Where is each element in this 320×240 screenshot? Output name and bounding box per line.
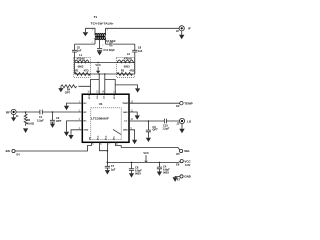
svg-text:47Ω: 47Ω	[84, 69, 89, 73]
svg-text:VCC: VCC	[184, 159, 191, 163]
svg-text:E2: E2	[176, 104, 180, 108]
svg-text:VCC: VCC	[97, 135, 99, 140]
svg-text:C1: C1	[39, 115, 43, 119]
svg-text:GND: GND	[184, 175, 192, 179]
svg-text:OPT: OPT	[56, 119, 62, 123]
svg-text:EN: EN	[6, 149, 10, 153]
svg-text:GND: GND	[123, 130, 128, 132]
svg-text:1µF: 1µF	[111, 167, 116, 171]
svg-text:0603: 0603	[163, 171, 169, 175]
svg-text:2.2pF: 2.2pF	[37, 118, 44, 122]
svg-text:LO-: LO-	[104, 95, 106, 99]
svg-text:SEL: SEL	[184, 149, 190, 153]
svg-text:VCC: VCC	[89, 94, 91, 99]
svg-text:VCC: VCC	[143, 151, 149, 155]
svg-text:TEMP: TEMP	[184, 102, 192, 106]
svg-text:VCC: VCC	[114, 94, 116, 99]
svg-text:R3: R3	[27, 118, 31, 122]
svg-text:R1: R1	[75, 69, 79, 73]
svg-text:EN: EN	[89, 137, 91, 140]
svg-text:47Ω: 47Ω	[129, 69, 134, 73]
svg-text:TC4-1W-7ALN+: TC4-1W-7ALN+	[91, 22, 114, 26]
svg-text:IF: IF	[188, 26, 191, 30]
svg-text:LO: LO	[124, 121, 127, 123]
svg-text:E6: E6	[176, 162, 180, 166]
svg-text:LO: LO	[187, 119, 192, 123]
svg-text:R2: R2	[121, 69, 125, 73]
svg-text:RF: RF	[6, 110, 10, 114]
svg-text:U1: U1	[99, 102, 103, 106]
svg-text:LTC5586IUF: LTC5586IUF	[91, 116, 109, 120]
svg-text:VCC: VCC	[105, 135, 107, 140]
svg-text:C3 22pF: C3 22pF	[106, 39, 117, 43]
svg-text:49.9Ω: 49.9Ω	[27, 122, 34, 126]
svg-text:TEMP: TEMP	[122, 103, 128, 105]
svg-text:470nH: 470nH	[77, 56, 85, 60]
svg-text:1nF: 1nF	[138, 49, 143, 53]
svg-text:E5: E5	[176, 152, 180, 156]
svg-text:T1: T1	[94, 15, 98, 19]
svg-text:GND: GND	[123, 112, 128, 114]
svg-text:C11 22pF: C11 22pF	[103, 48, 115, 52]
svg-text:E4: E4	[17, 153, 21, 157]
svg-text:0603: 0603	[78, 64, 84, 68]
svg-text:470nH: 470nH	[124, 57, 132, 61]
svg-text:OPT: OPT	[152, 128, 158, 132]
svg-text:GND: GND	[84, 130, 89, 132]
svg-text:3.3V: 3.3V	[185, 163, 191, 167]
svg-text:NC: NC	[84, 121, 88, 123]
svg-text:1nF: 1nF	[77, 49, 82, 53]
svg-text:0603: 0603	[135, 171, 141, 175]
svg-text:1.5pF: 1.5pF	[162, 126, 169, 130]
svg-text:VCC: VCC	[95, 63, 101, 67]
svg-text:OPT: OPT	[65, 91, 71, 95]
svg-text:E7: E7	[177, 178, 181, 182]
svg-text:0603: 0603	[124, 64, 130, 68]
svg-text:NC: NC	[84, 103, 88, 105]
